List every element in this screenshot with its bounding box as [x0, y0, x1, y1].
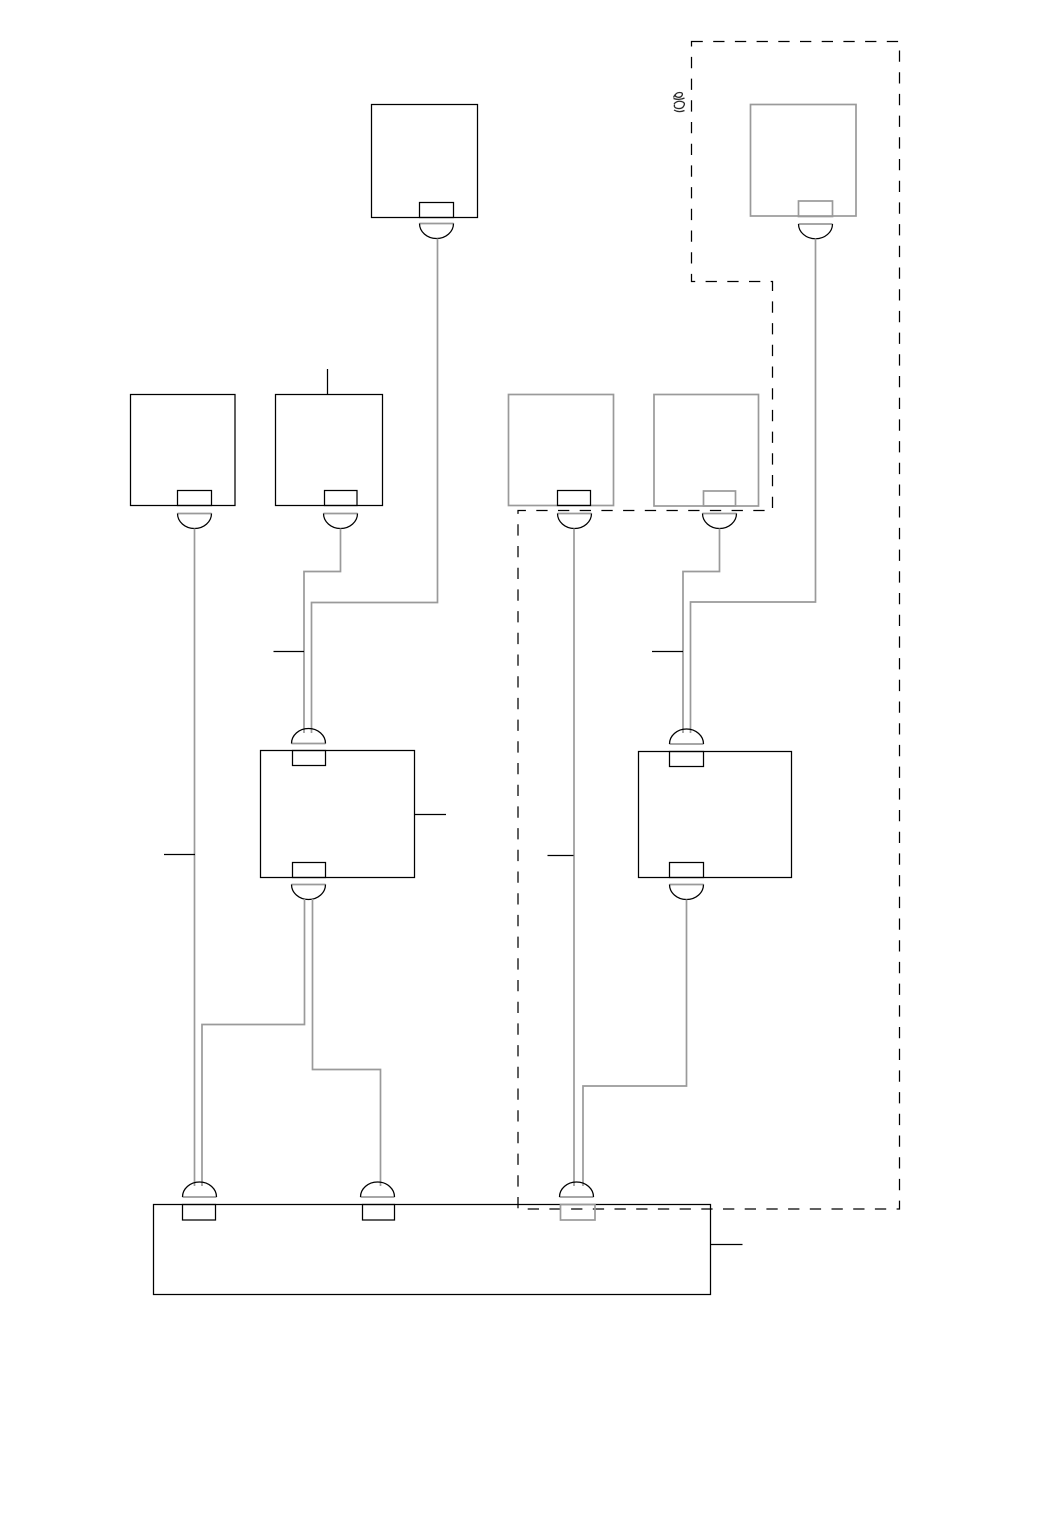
connector D9 above busbar	[183, 1182, 217, 1197]
box B7 (left equipment)	[261, 751, 415, 878]
wire W6: B6 to D8a	[683, 529, 720, 734]
box B2 (top right device, gray)	[751, 105, 857, 217]
connector D3 under B3	[178, 514, 212, 529]
busbar (bottom trunk)	[154, 1205, 711, 1295]
connector D7a above B7	[292, 729, 326, 744]
stub on top of B4	[327, 369, 329, 395]
wire W8: D8b to D11	[583, 900, 687, 1187]
tick T4	[548, 855, 574, 857]
box B1 (top middle device)	[372, 105, 478, 218]
wire W4a: D7b to D9	[202, 899, 305, 1186]
tick T2	[652, 651, 683, 653]
wire W1: B1 to D7a	[312, 239, 438, 734]
box B8 (right equipment)	[639, 752, 792, 878]
wire W2: B4 to D7a	[304, 529, 341, 734]
notch of B5 (black)	[558, 491, 591, 506]
connector D4 under B4	[324, 514, 358, 529]
wire W5: B5 to D11	[573, 529, 575, 1187]
box B3 (left device)	[131, 395, 236, 506]
dashed zone boundary	[518, 42, 900, 1210]
connector D6 under B6	[703, 514, 737, 529]
connector D8a above B8	[670, 729, 704, 744]
connector D5 under B5	[558, 514, 592, 529]
connector D2 under B2	[799, 224, 833, 239]
box B4 (second left device)	[276, 395, 383, 506]
busbar notch 3 (gray)	[561, 1205, 596, 1221]
wire W3: B3 to D9	[194, 529, 196, 1187]
connector D7b under B7	[292, 885, 326, 900]
box B6 (middle right device, gray)	[654, 395, 759, 507]
right stub of busbar	[711, 1244, 743, 1246]
wire W7: B2 to D8a	[691, 239, 816, 734]
wire W4b: D7b to D10	[313, 899, 381, 1186]
zone label text	[674, 93, 685, 112]
connector D10 above busbar	[361, 1182, 395, 1197]
connector D8b under B8	[670, 885, 704, 900]
box B5 (middle device, gray)	[509, 395, 614, 506]
connector D1 under B1	[420, 224, 454, 239]
tick T3	[164, 854, 195, 856]
connector D11 above busbar	[560, 1182, 594, 1197]
tick T1	[274, 651, 305, 653]
right stub of B7	[414, 814, 446, 816]
